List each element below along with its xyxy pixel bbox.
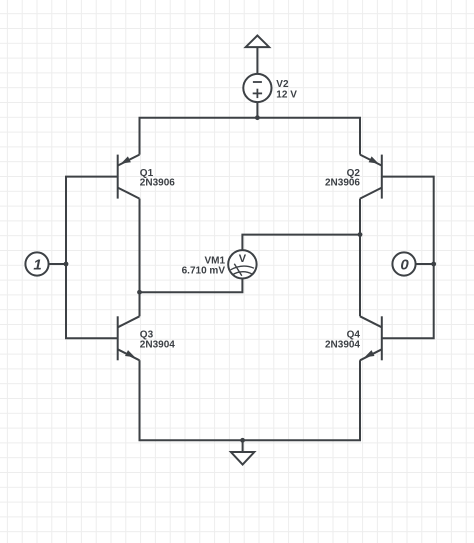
transistor Q1 — [118, 155, 140, 199]
node 1 — [25, 252, 48, 275]
wire right collector chain — [359, 199, 361, 317]
svg-text:1: 1 — [33, 256, 41, 273]
svg-text:V2: V2 — [276, 79, 289, 90]
transistor Q2 — [360, 155, 382, 199]
junction V2 / top rail — [255, 115, 260, 120]
wire base loop right — [382, 177, 434, 339]
junction node 0 / base loop — [431, 262, 436, 267]
wire power stem — [256, 47, 258, 74]
junction ground / bottom rail — [240, 438, 245, 443]
junction VM1 top / right chain — [358, 232, 363, 237]
wire node 1 lead — [49, 263, 66, 265]
node 0 — [392, 252, 415, 275]
wire left collector chain — [139, 199, 141, 317]
ground — [231, 452, 254, 465]
svg-text:2N3904: 2N3904 — [140, 339, 175, 350]
wire node 0 lead — [416, 263, 434, 265]
wire VM1 bottom — [140, 279, 243, 293]
voltage source V2 — [243, 74, 271, 102]
svg-text:V: V — [239, 253, 247, 265]
wire ground stem — [242, 440, 244, 452]
wire VM1 top — [242, 235, 360, 251]
svg-text:0: 0 — [400, 256, 409, 273]
transistor Q3 — [118, 316, 140, 360]
wire bottom rail — [140, 360, 361, 440]
wire V2 to top rail — [256, 102, 258, 118]
voltmeter VM1 — [228, 250, 256, 278]
transistor Q4 — [360, 316, 382, 360]
junction node 1 / base loop — [64, 262, 69, 267]
svg-text:12 V: 12 V — [276, 90, 297, 101]
svg-text:6.710 mV: 6.710 mV — [182, 265, 226, 276]
svg-text:2N3906: 2N3906 — [325, 178, 360, 189]
wire top rail — [140, 118, 361, 155]
junction VM1 bottom / left chain — [137, 290, 142, 295]
svg-text:2N3904: 2N3904 — [325, 339, 360, 350]
wire base loop left — [66, 177, 118, 339]
svg-text:2N3906: 2N3906 — [140, 178, 175, 189]
power flag VCC — [246, 36, 269, 48]
